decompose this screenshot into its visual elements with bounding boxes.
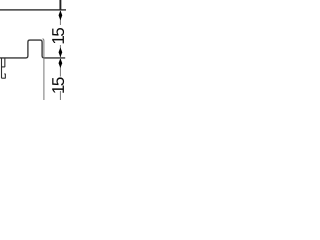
wire pocket bottom: [2, 66, 6, 68]
background: [0, 0, 84, 100]
wire left vertical B: [4, 58, 6, 67]
wire top surface line: [0, 9, 66, 11]
dim text 15 lower: [52, 77, 64, 92]
dim text 15 upper: [52, 28, 64, 43]
arrowhead down at middle line: [59, 47, 63, 57]
wire lower notch right vertical: [4, 74, 6, 78]
arrowhead up at middle line: [59, 58, 63, 68]
wire left vertical A: [1, 58, 3, 78]
wire lower notch top tick: [4, 73, 5, 75]
arrowhead up at top line: [59, 10, 63, 20]
dimension line segments: [59, 0, 61, 10]
wire middle surface line with bump: [0, 40, 65, 58]
wire bottom line: [2, 77, 6, 79]
wire right part edge with top hook: [43, 39, 44, 100]
